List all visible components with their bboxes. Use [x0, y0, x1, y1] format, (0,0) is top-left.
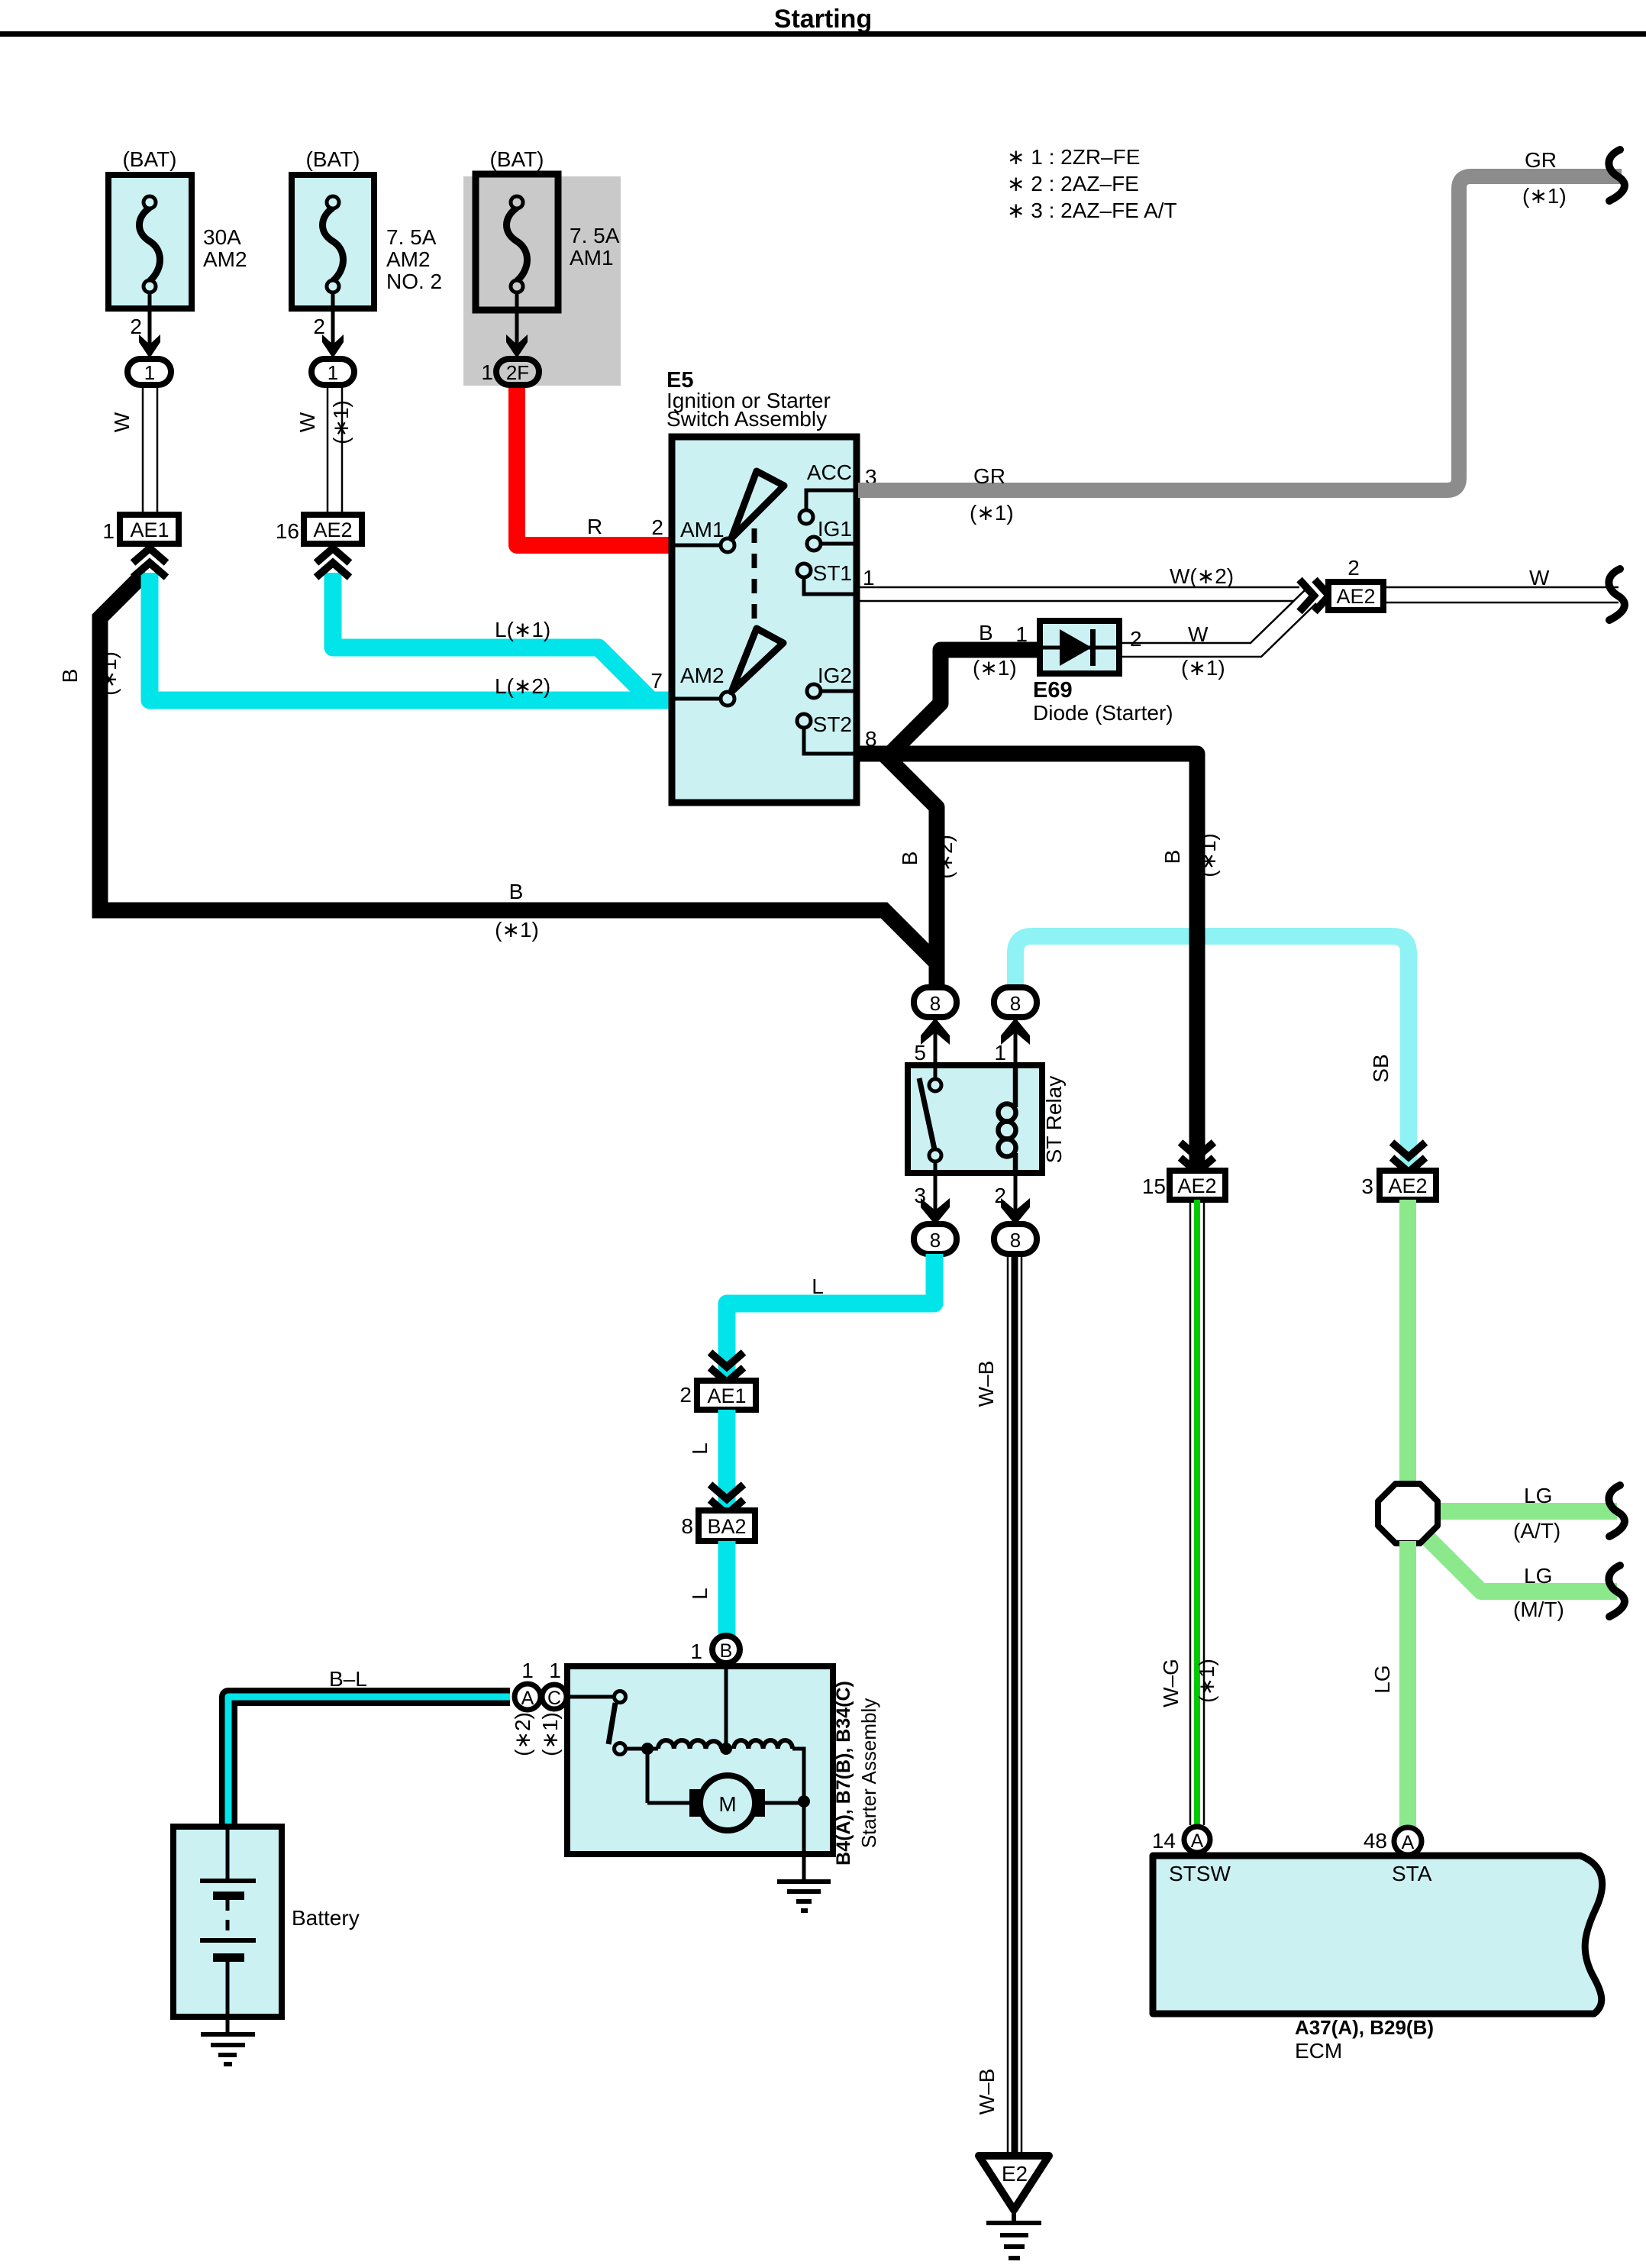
svg-text:AM2: AM2 [680, 664, 725, 687]
wire W(*2) hollow pair from ST1 [857, 587, 1299, 601]
svg-text:3: 3 [1361, 1174, 1373, 1198]
svg-text:L(∗1): L(∗1) [495, 618, 550, 641]
chevron arrows down into BA2 [710, 1485, 744, 1514]
wire SB pale cyan from relay to AE2 pin3 [1015, 936, 1409, 1171]
connector circle A (starter) [515, 1684, 541, 1710]
svg-text:48: 48 [1364, 1829, 1387, 1853]
starter solenoid coils [625, 1747, 658, 1751]
wire L (*1) cyan from AE2 joining L(*2) [333, 573, 651, 700]
svg-text:(M/T): (M/T) [1513, 1598, 1564, 1621]
svg-text:2: 2 [679, 1383, 692, 1407]
svg-text:(∗2): (∗2) [511, 1712, 534, 1756]
svg-text:Diode (Starter): Diode (Starter) [1033, 701, 1173, 725]
svg-text:8: 8 [930, 1229, 941, 1252]
svg-text:E69: E69 [1033, 678, 1073, 703]
svg-text:1: 1 [328, 361, 338, 384]
svg-text:AE2: AE2 [1388, 1174, 1427, 1197]
svg-text:1: 1 [690, 1640, 702, 1663]
wire GR gray from ACC to top right [858, 176, 1622, 490]
svg-text:ECM: ECM [1295, 2039, 1342, 2063]
ground symbol below E2 [986, 2210, 1041, 2258]
relay coil [999, 1065, 1016, 1173]
wire W-G from AE2 pin15 to ECM pin14 [1190, 1200, 1204, 1825]
svg-text:1: 1 [1015, 622, 1028, 646]
ECM box [1153, 1856, 1602, 2014]
wire from circle B down [725, 1663, 728, 1749]
svg-text:AM2: AM2 [386, 247, 431, 271]
starter motor M [646, 1749, 650, 1803]
black B*1 wire overlap redraw at crossing [1189, 928, 1205, 945]
wire fuse2 to connector [331, 292, 335, 347]
svg-text:AE1: AE1 [130, 519, 169, 541]
svg-text:LG: LG [1370, 1665, 1394, 1693]
wire W from fuse1 (hollow pair) [143, 385, 157, 515]
svg-text:AE2: AE2 [313, 519, 352, 541]
svg-text:B: B [898, 851, 921, 866]
svg-text:AM1: AM1 [570, 246, 614, 270]
svg-text:ST2: ST2 [813, 712, 852, 736]
svg-text:1: 1 [521, 1659, 534, 1682]
svg-text:14: 14 [1152, 1829, 1176, 1853]
svg-text:30A: 30A [203, 225, 241, 249]
wire LG from AE2 pin3 to octagon [1399, 1200, 1416, 1488]
fuse 7.5A AM2 NO.2 box [292, 175, 374, 309]
ground (starter) [777, 1882, 831, 1911]
arrow into connector 1 [322, 334, 344, 358]
E5 AM2 switch lever [731, 628, 783, 692]
svg-text:(∗1): (∗1) [1196, 833, 1220, 877]
wire B-L battery to circle A [228, 1697, 510, 1827]
svg-text:B: B [979, 621, 993, 645]
wire relay pin1 up [1014, 1023, 1018, 1065]
svg-text:Battery: Battery [292, 1906, 360, 1930]
arrow into connector 2F [506, 334, 528, 358]
svg-text:B: B [1160, 850, 1184, 864]
off-page squiggle LG A/T [1609, 1485, 1625, 1536]
fuse 30A AM2 box [108, 175, 192, 309]
svg-text:∗ 1 : 2ZR–FE: ∗ 1 : 2ZR–FE [1007, 145, 1140, 169]
svg-text:8: 8 [681, 1514, 693, 1538]
svg-text:W–G: W–G [1159, 1659, 1183, 1707]
fuse 7.5A AM1 box [476, 174, 558, 310]
svg-text:AE2: AE2 [1177, 1174, 1216, 1197]
svg-text:L: L [688, 1588, 712, 1600]
svg-text:B: B [720, 1640, 733, 1662]
svg-text:Starting: Starting [774, 5, 872, 34]
wire motor to ground [802, 1801, 806, 1882]
svg-text:B4(A), B7(B), B34(C): B4(A), B7(B), B34(C) [833, 1681, 854, 1866]
battery box [173, 1827, 282, 2017]
svg-text:L(∗2): L(∗2) [495, 674, 550, 698]
chevron arrows up into AE1 [133, 548, 166, 577]
ground (battery) [201, 2034, 255, 2064]
arrow down into oval (pin2) [1001, 1198, 1030, 1225]
svg-text:AM2: AM2 [203, 247, 247, 271]
wire fuse3 to connector [515, 292, 519, 347]
svg-text:16: 16 [276, 519, 299, 543]
svg-text:2: 2 [651, 515, 663, 539]
svg-text:8: 8 [1010, 1229, 1021, 1252]
connector oval 8 (relay pin2 bottom) [994, 1224, 1037, 1254]
wire LG (M/T) branch [1426, 1536, 1617, 1591]
svg-text:STSW: STSW [1169, 1862, 1231, 1885]
svg-text:R: R [587, 515, 602, 538]
svg-text:ACC: ACC [807, 460, 852, 484]
connector oval 8 (relay pin5 top) [914, 987, 957, 1017]
wire W (*1) from fuse2 (hollow pair) [328, 385, 342, 515]
svg-text:2: 2 [130, 315, 142, 338]
chevron arrows right into AE2 pin2 [1299, 580, 1329, 612]
svg-text:B: B [58, 669, 82, 683]
svg-text:(∗1): (∗1) [495, 918, 539, 942]
svg-text:2: 2 [313, 315, 325, 338]
svg-text:5: 5 [914, 1041, 926, 1065]
wire B (*1) thick black from AE1 to lower junction [100, 573, 937, 963]
fuse 30A AM2 element [140, 196, 160, 292]
svg-text:(∗1): (∗1) [970, 501, 1014, 525]
svg-text:1: 1 [144, 361, 155, 384]
wire L cyan BA2 to starter B [718, 1541, 736, 1636]
svg-text:(∗1): (∗1) [1195, 1659, 1218, 1703]
svg-text:2F: 2F [506, 361, 529, 384]
starter switch contact [566, 1695, 614, 1699]
svg-text:(∗1): (∗1) [97, 651, 121, 696]
svg-text:7. 5A: 7. 5A [570, 224, 620, 247]
wire relay pin2 down [1014, 1173, 1018, 1216]
wire branch to diode pin1 [890, 650, 1041, 754]
svg-text:W: W [295, 412, 319, 432]
svg-text:(A/T): (A/T) [1513, 1519, 1560, 1543]
ground E2 triangle [979, 2156, 1049, 2210]
svg-text:W: W [110, 412, 134, 432]
svg-text:1: 1 [863, 566, 875, 590]
svg-text:Starter Assembly: Starter Assembly [857, 1698, 880, 1849]
starter assembly box [567, 1666, 833, 1854]
off-page squiggle GR [1609, 150, 1625, 201]
svg-text:AE2: AE2 [1336, 585, 1375, 608]
svg-text:(∗1): (∗1) [329, 400, 353, 444]
chevron arrows up into AE2 [316, 548, 350, 577]
octagon junction [1378, 1484, 1438, 1543]
E5 lever link dashed [752, 528, 757, 626]
svg-text:E2: E2 [1002, 2162, 1028, 2186]
svg-text:7. 5A: 7. 5A [386, 225, 437, 249]
svg-text:1: 1 [549, 1659, 561, 1682]
svg-text:L: L [688, 1443, 712, 1455]
svg-text:15: 15 [1142, 1174, 1166, 1198]
chevron arrows down into AE2 pin3 [1392, 1142, 1425, 1172]
svg-text:NO. 2: NO. 2 [386, 270, 442, 293]
svg-text:AM1: AM1 [680, 518, 725, 541]
fuse 7.5A AM2 NO.2 element [323, 196, 344, 292]
wire L cyan AE1 to BA2 [718, 1410, 736, 1510]
svg-text:LG: LG [1524, 1484, 1552, 1507]
gray panel behind AM1 fuse [463, 176, 621, 386]
connector oval 8 (relay pin1 top) [994, 987, 1037, 1017]
svg-text:7: 7 [650, 669, 663, 693]
wire W-B from relay pin2 to E2 [1008, 1254, 1021, 2156]
connector circle C (starter) [542, 1685, 566, 1709]
connector oval 1 (fuse1) [127, 359, 171, 385]
svg-text:IG2: IG2 [818, 664, 852, 687]
battery cells [200, 1827, 256, 2034]
svg-text:2: 2 [1130, 627, 1142, 651]
svg-text:B: B [509, 880, 524, 903]
arrow up into oval (pin1) [1001, 1018, 1030, 1045]
ST relay box [908, 1065, 1042, 1173]
svg-text:1: 1 [994, 1041, 1006, 1065]
arrow into connector 1 [139, 334, 160, 358]
off-page squiggle W [1609, 569, 1625, 620]
connector circle A (pin 48) [1394, 1827, 1422, 1855]
wire relay pin5 up [934, 1023, 938, 1065]
svg-text:ST1: ST1 [813, 561, 852, 585]
svg-text:W: W [1188, 622, 1209, 646]
svg-text:LG: LG [1524, 1564, 1552, 1588]
connector oval 1 (fuse2) [311, 359, 354, 385]
wire W (*1) hollow pair from diode to AE2 pin2 [1119, 589, 1316, 657]
svg-text:(BAT): (BAT) [305, 147, 360, 171]
connector oval 2F [496, 359, 539, 385]
off-page squiggle LG M/T [1609, 1565, 1625, 1617]
svg-text:(∗1): (∗1) [973, 656, 1017, 680]
svg-text:GR: GR [1525, 148, 1557, 172]
svg-text:(BAT): (BAT) [489, 147, 544, 171]
E5 AM1 switch lever [731, 471, 784, 538]
svg-text:Switch Assembly: Switch Assembly [666, 407, 827, 431]
svg-text:∗ 2 : 2AZ–FE: ∗ 2 : 2AZ–FE [1007, 172, 1139, 195]
svg-text:(∗1): (∗1) [1181, 656, 1225, 680]
svg-text:∗ 3 : 2AZ–FE A/T: ∗ 3 : 2AZ–FE A/T [1007, 199, 1177, 222]
wire L cyan from relay pin3 to AE1 pin2 [727, 1254, 934, 1379]
wire B (*1) thick black ST2/diode junction [857, 754, 1197, 1171]
svg-text:(BAT): (BAT) [122, 147, 176, 171]
svg-text:(∗1): (∗1) [1522, 184, 1567, 208]
relay contact [934, 1065, 938, 1079]
wire W hollow pair from AE2 pin2 to right edge [1383, 587, 1619, 603]
wire LG (A/T) branch [1438, 1503, 1617, 1520]
svg-text:M: M [718, 1792, 736, 1816]
svg-text:SB: SB [1369, 1054, 1393, 1082]
svg-text:8: 8 [930, 992, 941, 1015]
E69 diode (starter) [1040, 621, 1119, 674]
svg-text:STA: STA [1392, 1862, 1432, 1885]
connector circle A (pin 14) [1184, 1827, 1210, 1853]
wire B (*2) thick black to relay [886, 756, 937, 987]
svg-text:1: 1 [481, 360, 493, 384]
svg-text:8: 8 [1010, 992, 1021, 1015]
svg-text:(∗1): (∗1) [538, 1712, 562, 1756]
svg-text:C: C [547, 1688, 561, 1709]
svg-text:L: L [812, 1275, 824, 1298]
svg-text:BA2: BA2 [707, 1515, 746, 1538]
svg-text:B–L: B–L [329, 1667, 367, 1691]
svg-text:1: 1 [102, 519, 115, 543]
wire fuse1 to connector [148, 292, 152, 347]
svg-text:A37(A), B29(B): A37(A), B29(B) [1295, 2016, 1434, 2039]
fuse 7.5A AM1 element [507, 196, 528, 292]
wire L (*2) cyan from AE1 to E5 AM2 [150, 573, 673, 700]
svg-text:W: W [1529, 566, 1550, 590]
svg-text:2: 2 [1347, 556, 1360, 580]
arrow down into oval (pin3) [921, 1198, 950, 1225]
wire LG octagon to ECM pin48 [1399, 1541, 1416, 1827]
svg-text:AE1: AE1 [707, 1384, 746, 1407]
chevron arrows down into AE1 pin2 [710, 1352, 744, 1382]
svg-text:IG1: IG1 [818, 517, 852, 541]
title underline bar [0, 31, 1646, 37]
svg-text:W–B: W–B [975, 2069, 999, 2115]
svg-text:A: A [1402, 1832, 1415, 1853]
svg-text:GR: GR [973, 464, 1005, 488]
wire R red from 2F to E5 AM1 [517, 388, 673, 545]
svg-text:A: A [1191, 1830, 1204, 1852]
svg-text:W–B: W–B [974, 1361, 998, 1407]
chevron arrows down into AE2 pin15 [1180, 1142, 1214, 1172]
svg-text:ST Relay: ST Relay [1042, 1076, 1066, 1164]
connector oval 8 (relay pin3 bottom) [914, 1224, 957, 1254]
E5 ignition switch box [672, 437, 857, 803]
wire relay pin3 down [934, 1173, 938, 1216]
svg-text:(∗2): (∗2) [933, 835, 957, 879]
arrow up into oval (pin5) [921, 1018, 950, 1045]
svg-text:W(∗2): W(∗2) [1170, 564, 1234, 588]
svg-text:A: A [521, 1688, 534, 1709]
